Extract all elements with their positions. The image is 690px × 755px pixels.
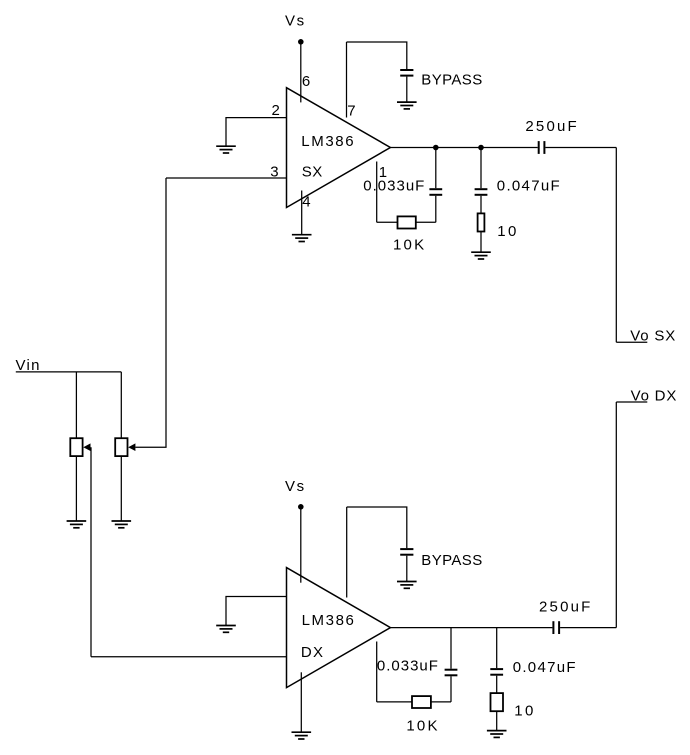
node Vs terminal dot (DX) <box>298 504 304 510</box>
wire 0.033uF branch upper (DX) <box>450 628 452 669</box>
wire 0.047uF to resistor (SX) <box>480 196 482 214</box>
wire feedback loop bottom right (DX) <box>431 701 451 703</box>
svg-text:LM386: LM386 <box>301 133 355 150</box>
svg-text:LM386: LM386 <box>302 612 356 629</box>
wire pin 3 (DX) <box>91 656 287 658</box>
wire pin 4 (SX) <box>301 191 303 235</box>
ground pin 2 (SX) <box>216 146 236 153</box>
svg-text:4: 4 <box>302 194 310 211</box>
ground P2 <box>112 521 132 528</box>
svg-text:Vs: Vs <box>285 13 306 30</box>
op-amp U1 LM386 SX <box>287 88 391 208</box>
wire bypass cap to ground (DX) <box>406 556 408 582</box>
svg-text:2: 2 <box>272 102 280 119</box>
svg-text:0.033uF: 0.033uF <box>363 177 425 194</box>
wire resistor 10 to ground (SX) <box>480 232 482 253</box>
ground bypass (DX) <box>397 582 417 589</box>
ground resistor 10 (SX) <box>471 252 491 259</box>
resistor 10K (SX) <box>398 216 416 228</box>
wire Vin to pot P1 <box>75 372 77 438</box>
capacitor bypass (DX) <box>400 549 413 555</box>
junction dot A (SX) <box>433 145 439 151</box>
svg-text:0.047uF: 0.047uF <box>497 178 561 195</box>
capacitor 250uF (SX) <box>539 141 545 154</box>
svg-text:10: 10 <box>514 702 536 719</box>
wire resistor 10 to ground (DX) <box>496 711 498 730</box>
potentiometer P1 wiper arrow <box>83 443 90 451</box>
wire 0.033uF branch lower (SX) <box>435 196 437 223</box>
wire P2 wiper to SX pin 3 <box>135 178 166 447</box>
ground P1 <box>67 521 87 528</box>
wire Vs to pin 6 (DX) <box>300 507 302 583</box>
wire pin 2 stub (SX) <box>226 118 287 146</box>
wire P2 to ground <box>120 456 122 521</box>
capacitor 250uF (DX) <box>553 621 559 634</box>
wire Vo SX stub <box>616 341 647 343</box>
wire bypass loop (DX) <box>347 507 407 548</box>
wire feedback loop bottom right (SX) <box>416 221 436 223</box>
wire feedback loop bottom left (SX) <box>377 221 398 223</box>
svg-text:6: 6 <box>302 73 310 90</box>
wire output right segment (DX) <box>560 627 616 629</box>
junction dot B (SX) <box>478 145 484 151</box>
svg-text:3: 3 <box>270 164 278 181</box>
svg-text:BYPASS: BYPASS <box>421 552 482 569</box>
wire output down (SX) <box>615 148 617 343</box>
svg-text:BYPASS: BYPASS <box>421 71 482 88</box>
svg-text:7: 7 <box>347 103 355 120</box>
wire 0.047uF branch upper (DX) <box>496 628 498 669</box>
node Vs terminal dot (SX) <box>298 39 304 45</box>
ground pin 4 (SX) <box>292 235 312 242</box>
ground resistor 10 (DX) <box>487 731 507 738</box>
wire pin 1 (DX) <box>376 642 378 702</box>
wire bypass loop (SX) <box>347 42 407 69</box>
op-amp U2 LM386 DX <box>287 568 391 688</box>
wire P1 to ground <box>75 456 77 521</box>
wire Vin input <box>16 371 122 373</box>
svg-text:0.033uF: 0.033uF <box>377 658 439 675</box>
wire pin 1 (SX) <box>376 162 378 223</box>
svg-text:0.047uF: 0.047uF <box>513 659 577 676</box>
resistor 10K (DX) <box>412 696 431 708</box>
svg-text:10: 10 <box>497 223 519 240</box>
wire 0.047uF branch upper (SX) <box>480 148 482 189</box>
wire pin 7 (SX) <box>346 42 348 118</box>
potentiometer P2 body <box>115 438 127 456</box>
potentiometer P2 wiper arrow <box>128 443 135 451</box>
wire output left segment (DX) <box>390 627 552 629</box>
svg-text:250uF: 250uF <box>525 118 579 135</box>
capacitor 0.047uF (DX) <box>490 669 503 675</box>
resistor 10 (SX) <box>478 213 485 231</box>
wire pin 7 (DX) <box>346 507 348 598</box>
wire 0.033uF branch upper (SX) <box>435 148 437 189</box>
ground pin 2 (DX) <box>216 626 236 633</box>
svg-text:10K: 10K <box>393 237 426 254</box>
wire feedback loop bottom left (DX) <box>377 701 412 703</box>
capacitor 0.033uF (SX) <box>429 189 442 195</box>
wire 0.033uF branch lower (DX) <box>450 676 452 702</box>
wire pin 2 stub (DX) <box>226 597 287 626</box>
potentiometer P1 body <box>70 438 82 456</box>
wire output left segment (SX) <box>390 147 537 149</box>
capacitor 0.047uF (SX) <box>475 189 488 195</box>
wire bypass cap to ground (SX) <box>406 77 408 102</box>
resistor 10 (DX) <box>491 693 504 711</box>
svg-text:250uF: 250uF <box>539 598 593 615</box>
wire output right segment (SX) <box>545 147 616 149</box>
wire Vo DX down to output (DX) <box>615 402 617 628</box>
svg-text:DX: DX <box>301 644 324 661</box>
capacitor bypass (SX) <box>400 70 413 76</box>
wire Vo DX stub <box>616 401 647 403</box>
wire pin 3 (SX) <box>166 177 287 179</box>
svg-text:Vs: Vs <box>285 478 306 495</box>
wire 0.047uF to resistor (DX) <box>496 676 498 693</box>
svg-text:SX: SX <box>302 163 323 180</box>
ground bypass (SX) <box>397 102 417 109</box>
wire Vs to pin 6 (SX) <box>300 42 302 103</box>
wire Vin to pot P2 <box>120 372 122 438</box>
ground pin 4 (DX) <box>292 732 312 739</box>
capacitor 0.033uF (DX) <box>445 670 458 676</box>
svg-text:10K: 10K <box>406 717 439 734</box>
wire P1 wiper down to DX pin 3 <box>90 447 92 657</box>
svg-text:Vo SX: Vo SX <box>630 328 676 345</box>
wire pin 4 (DX) <box>300 672 302 732</box>
